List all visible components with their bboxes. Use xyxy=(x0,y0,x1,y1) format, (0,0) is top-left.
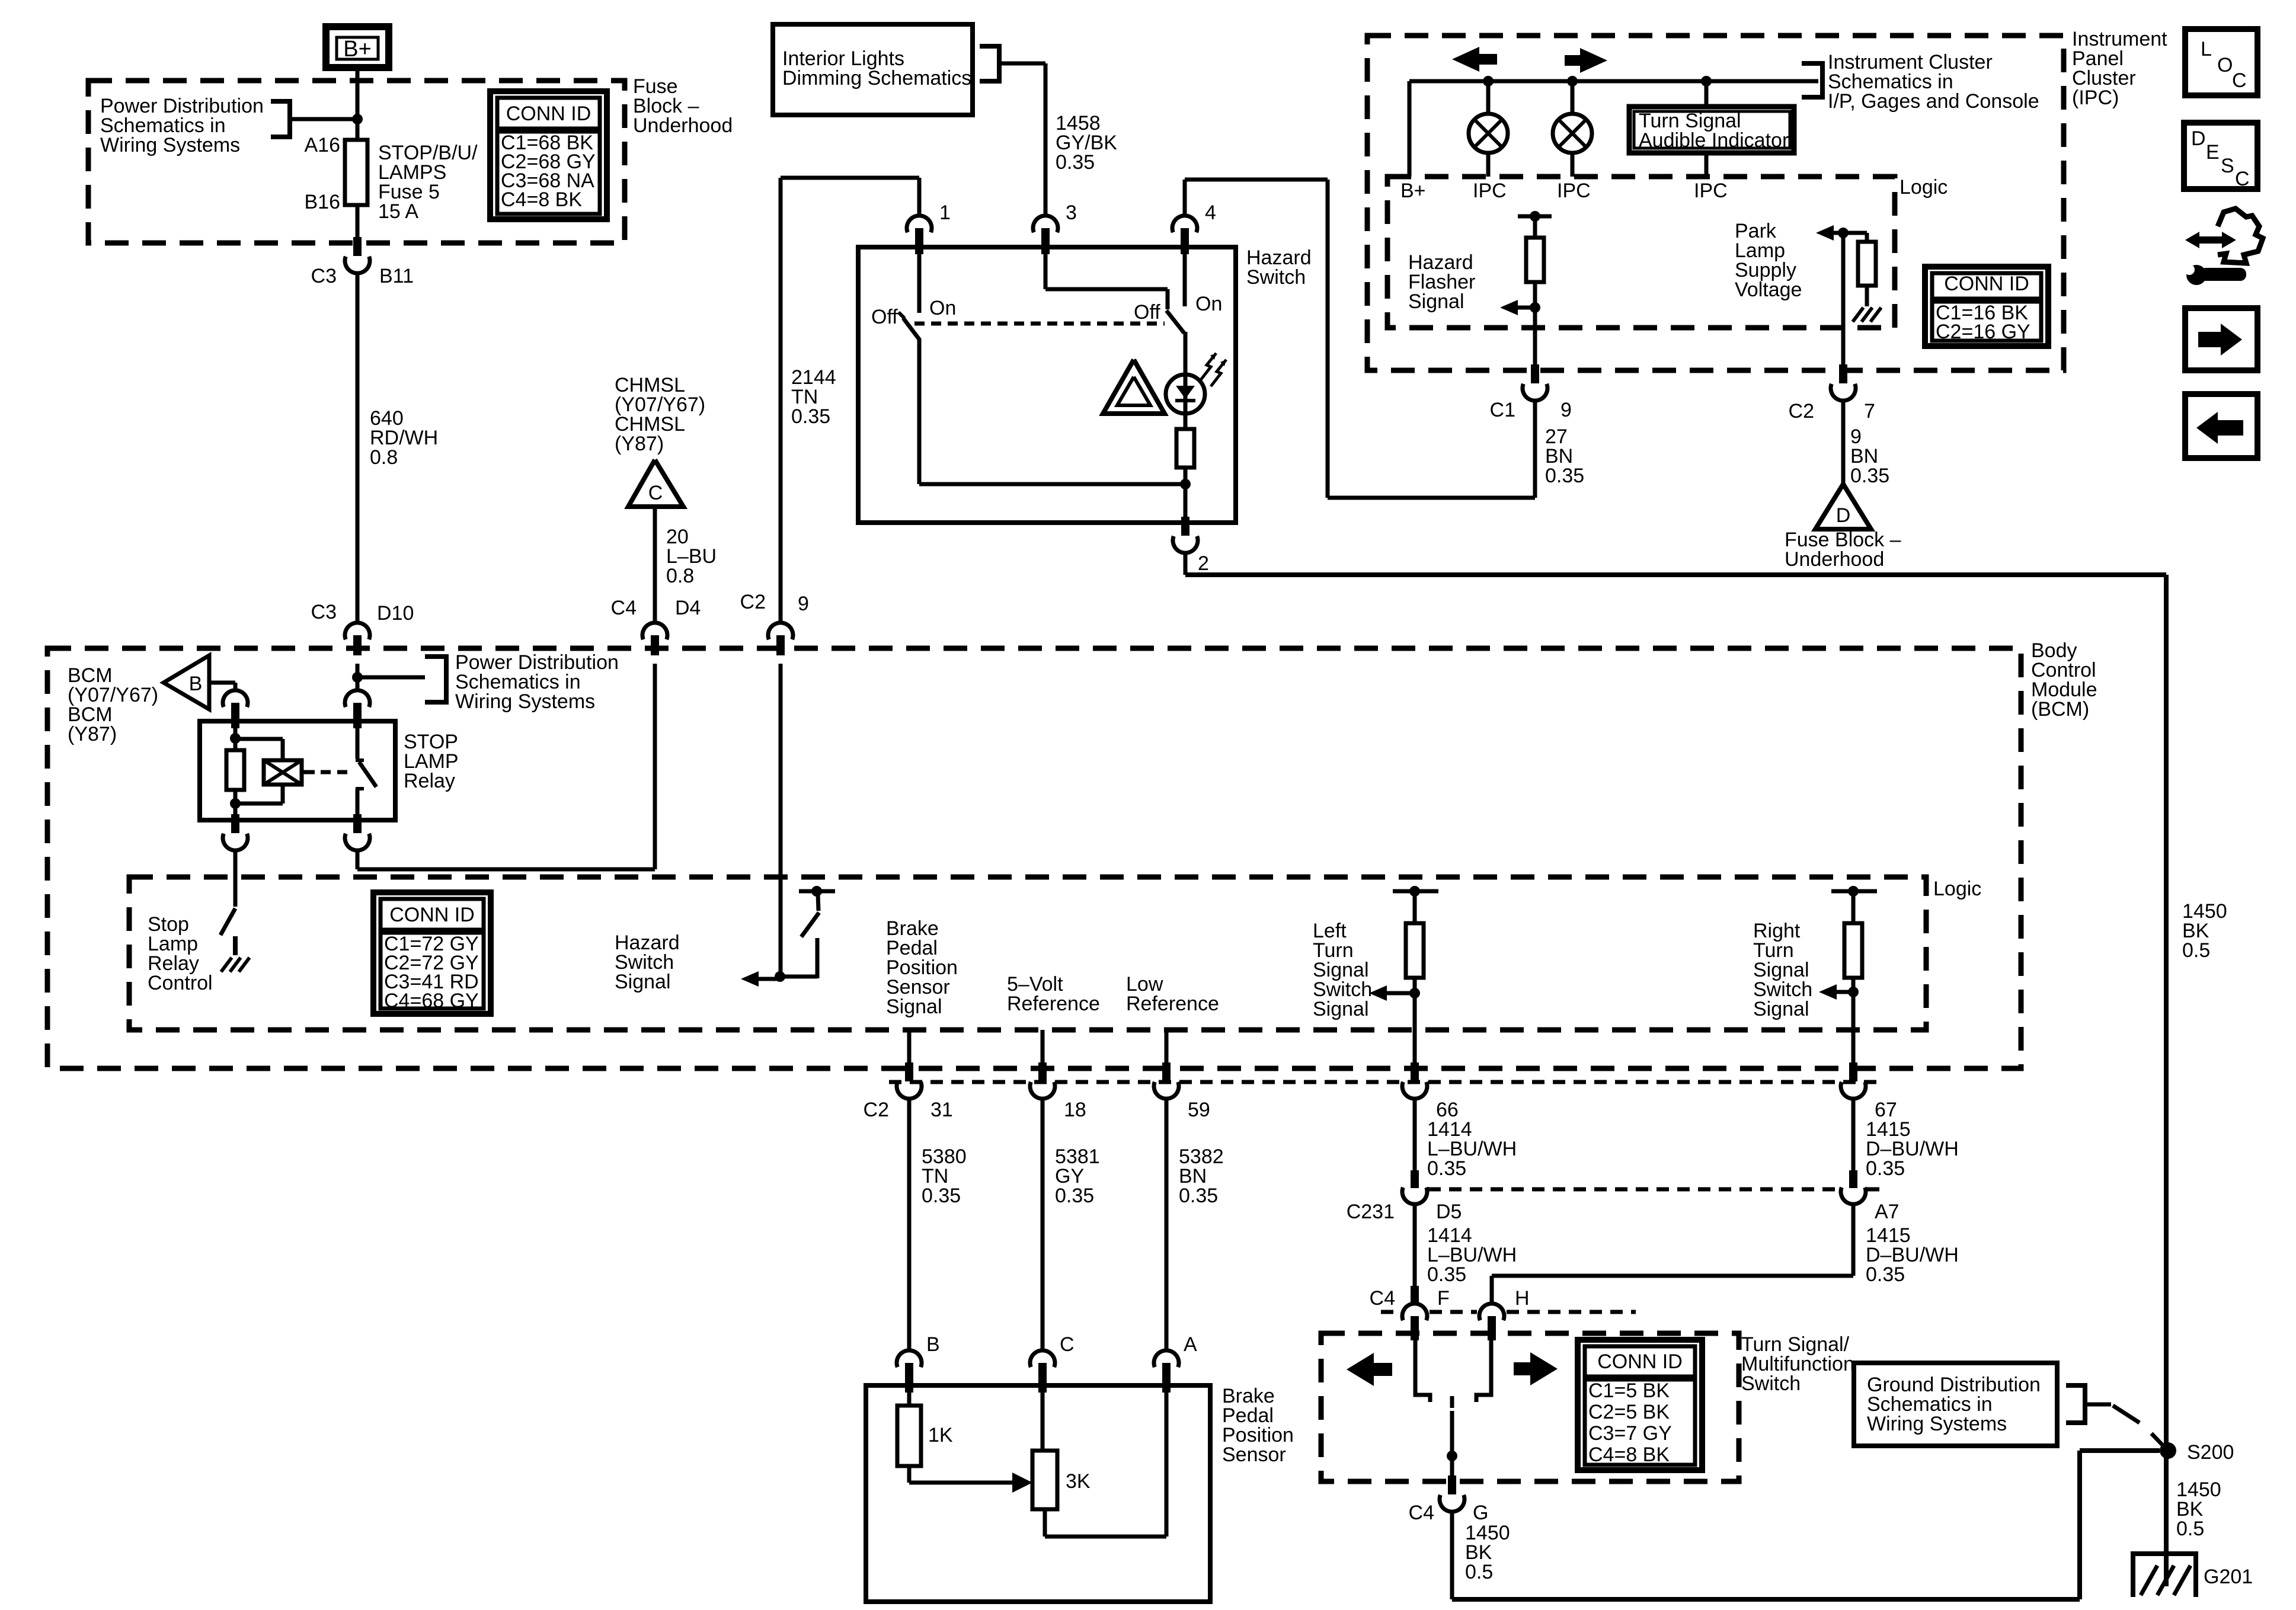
svg-text:Signal: Signal xyxy=(1313,998,1369,1020)
svg-text:59: 59 xyxy=(1188,1099,1210,1121)
svg-text:C2=16 GY: C2=16 GY xyxy=(1936,321,2030,343)
svg-text:B+: B+ xyxy=(343,37,372,62)
svg-text:0.35: 0.35 xyxy=(1179,1185,1218,1207)
svg-text:9: 9 xyxy=(1560,399,1572,421)
svg-text:9: 9 xyxy=(798,593,809,615)
svg-text:15 A: 15 A xyxy=(378,200,418,223)
svg-text:Switch: Switch xyxy=(1741,1372,1801,1395)
svg-text:31: 31 xyxy=(930,1099,953,1121)
svg-text:0.8: 0.8 xyxy=(666,565,694,587)
svg-text:B11: B11 xyxy=(379,265,414,287)
svg-text:0.35: 0.35 xyxy=(1866,1157,1905,1180)
svg-text:G: G xyxy=(1473,1502,1488,1524)
svg-text:C4=8 BK: C4=8 BK xyxy=(501,188,582,211)
svg-text:0.5: 0.5 xyxy=(1465,1561,1493,1583)
svg-text:Logic: Logic xyxy=(1933,878,1981,900)
svg-text:Wiring Systems: Wiring Systems xyxy=(1867,1413,2007,1435)
svg-text:Signal: Signal xyxy=(1408,290,1464,313)
svg-text:(Y87): (Y87) xyxy=(68,723,117,745)
svg-text:I/P, Gages and Console: I/P, Gages and Console xyxy=(1828,90,2039,113)
svg-text:(Y87): (Y87) xyxy=(615,433,664,455)
svg-text:Voltage: Voltage xyxy=(1735,279,1802,301)
svg-text:Dimming Schematics: Dimming Schematics xyxy=(782,67,971,89)
svg-text:Off: Off xyxy=(1134,301,1160,324)
svg-text:C2=5 BK: C2=5 BK xyxy=(1588,1401,1670,1423)
svg-text:1: 1 xyxy=(939,201,951,224)
svg-text:3: 3 xyxy=(1066,201,1077,224)
svg-text:C1: C1 xyxy=(1490,399,1515,421)
svg-text:Audible Indicator: Audible Indicator xyxy=(1639,129,1789,152)
svg-text:(IPC): (IPC) xyxy=(2072,87,2119,109)
svg-text:B: B xyxy=(926,1333,940,1356)
svg-text:Wiring Systems: Wiring Systems xyxy=(100,134,240,156)
svg-text:D10: D10 xyxy=(377,602,414,625)
svg-text:0.35: 0.35 xyxy=(1866,1263,1905,1286)
svg-text:B+: B+ xyxy=(1400,180,1426,202)
svg-text:CONN ID: CONN ID xyxy=(1944,273,2029,295)
svg-text:IPC: IPC xyxy=(1694,180,1728,202)
svg-text:L: L xyxy=(2201,38,2212,60)
svg-text:0.35: 0.35 xyxy=(791,405,830,428)
svg-text:Wiring Systems: Wiring Systems xyxy=(455,690,595,713)
svg-text:D: D xyxy=(1836,504,1851,527)
svg-text:B: B xyxy=(189,673,203,695)
svg-text:D4: D4 xyxy=(675,597,701,619)
svg-text:On: On xyxy=(929,297,956,319)
svg-text:Signal: Signal xyxy=(886,996,942,1018)
svg-text:Signal: Signal xyxy=(615,971,671,993)
svg-text:Underhood: Underhood xyxy=(633,114,733,137)
svg-text:(BCM): (BCM) xyxy=(2031,698,2089,721)
svg-text:4: 4 xyxy=(1205,201,1216,224)
svg-text:B16: B16 xyxy=(305,191,341,213)
svg-text:C2: C2 xyxy=(1789,400,1814,422)
svg-text:Relay: Relay xyxy=(404,770,455,792)
svg-text:0.5: 0.5 xyxy=(2176,1518,2204,1540)
svg-text:0.35: 0.35 xyxy=(1056,151,1095,174)
svg-text:F: F xyxy=(1437,1287,1450,1310)
svg-text:E: E xyxy=(2206,141,2220,164)
svg-text:D: D xyxy=(2191,127,2206,150)
svg-text:IPC: IPC xyxy=(1557,180,1591,202)
svg-text:7: 7 xyxy=(1864,400,1875,422)
svg-text:C: C xyxy=(2232,69,2247,92)
svg-text:C4: C4 xyxy=(1409,1502,1434,1524)
svg-text:C3: C3 xyxy=(311,265,337,287)
svg-text:C4=68 GY: C4=68 GY xyxy=(384,990,479,1012)
svg-text:C: C xyxy=(2235,168,2250,190)
svg-text:0.35: 0.35 xyxy=(922,1185,961,1207)
svg-text:C3=7 GY: C3=7 GY xyxy=(1588,1422,1672,1445)
svg-text:A7: A7 xyxy=(1875,1201,1900,1223)
svg-text:Off: Off xyxy=(871,306,898,328)
svg-text:S200: S200 xyxy=(2187,1441,2234,1464)
svg-text:Underhood: Underhood xyxy=(1785,548,1884,571)
svg-text:G201: G201 xyxy=(2204,1566,2253,1588)
svg-text:Switch: Switch xyxy=(1246,266,1306,289)
svg-text:0.35: 0.35 xyxy=(1850,465,1889,487)
svg-text:C4: C4 xyxy=(611,597,637,619)
svg-text:0.35: 0.35 xyxy=(1427,1157,1466,1180)
svg-text:CONN ID: CONN ID xyxy=(1597,1350,1683,1373)
svg-text:IPC: IPC xyxy=(1473,180,1507,202)
svg-text:C2: C2 xyxy=(864,1099,889,1121)
svg-text:Reference: Reference xyxy=(1007,993,1100,1015)
svg-text:Logic: Logic xyxy=(1900,176,1948,199)
svg-text:S: S xyxy=(2221,155,2234,177)
svg-text:C: C xyxy=(1060,1333,1075,1356)
svg-text:3K: 3K xyxy=(1066,1470,1091,1493)
svg-text:D5: D5 xyxy=(1436,1201,1462,1223)
svg-text:1K: 1K xyxy=(928,1424,953,1446)
svg-text:0.35: 0.35 xyxy=(1545,465,1584,487)
svg-text:0.8: 0.8 xyxy=(370,446,398,469)
svg-text:C4=8 BK: C4=8 BK xyxy=(1588,1443,1670,1466)
svg-text:0.5: 0.5 xyxy=(2182,939,2210,962)
svg-text:C3: C3 xyxy=(311,601,337,623)
svg-text:2: 2 xyxy=(1198,552,1209,575)
svg-text:A16: A16 xyxy=(305,134,341,156)
svg-text:0.35: 0.35 xyxy=(1055,1185,1094,1207)
svg-text:CONN ID: CONN ID xyxy=(389,904,475,926)
svg-text:C4: C4 xyxy=(1370,1287,1395,1310)
svg-text:C1=5 BK: C1=5 BK xyxy=(1588,1379,1670,1402)
svg-text:0.35: 0.35 xyxy=(1427,1263,1466,1286)
svg-text:18: 18 xyxy=(1064,1099,1086,1121)
svg-text:O: O xyxy=(2217,54,2233,76)
svg-text:H: H xyxy=(1515,1287,1530,1310)
svg-text:Reference: Reference xyxy=(1126,993,1219,1015)
svg-text:Control: Control xyxy=(148,972,213,994)
svg-text:Sensor: Sensor xyxy=(1222,1443,1286,1466)
svg-text:A: A xyxy=(1184,1333,1197,1356)
svg-text:On: On xyxy=(1195,293,1222,315)
svg-text:C2: C2 xyxy=(740,591,766,613)
svg-text:C231: C231 xyxy=(1347,1201,1395,1223)
svg-text:Signal: Signal xyxy=(1753,998,1809,1020)
svg-text:C: C xyxy=(648,482,663,504)
svg-text:CONN ID: CONN ID xyxy=(506,103,591,125)
